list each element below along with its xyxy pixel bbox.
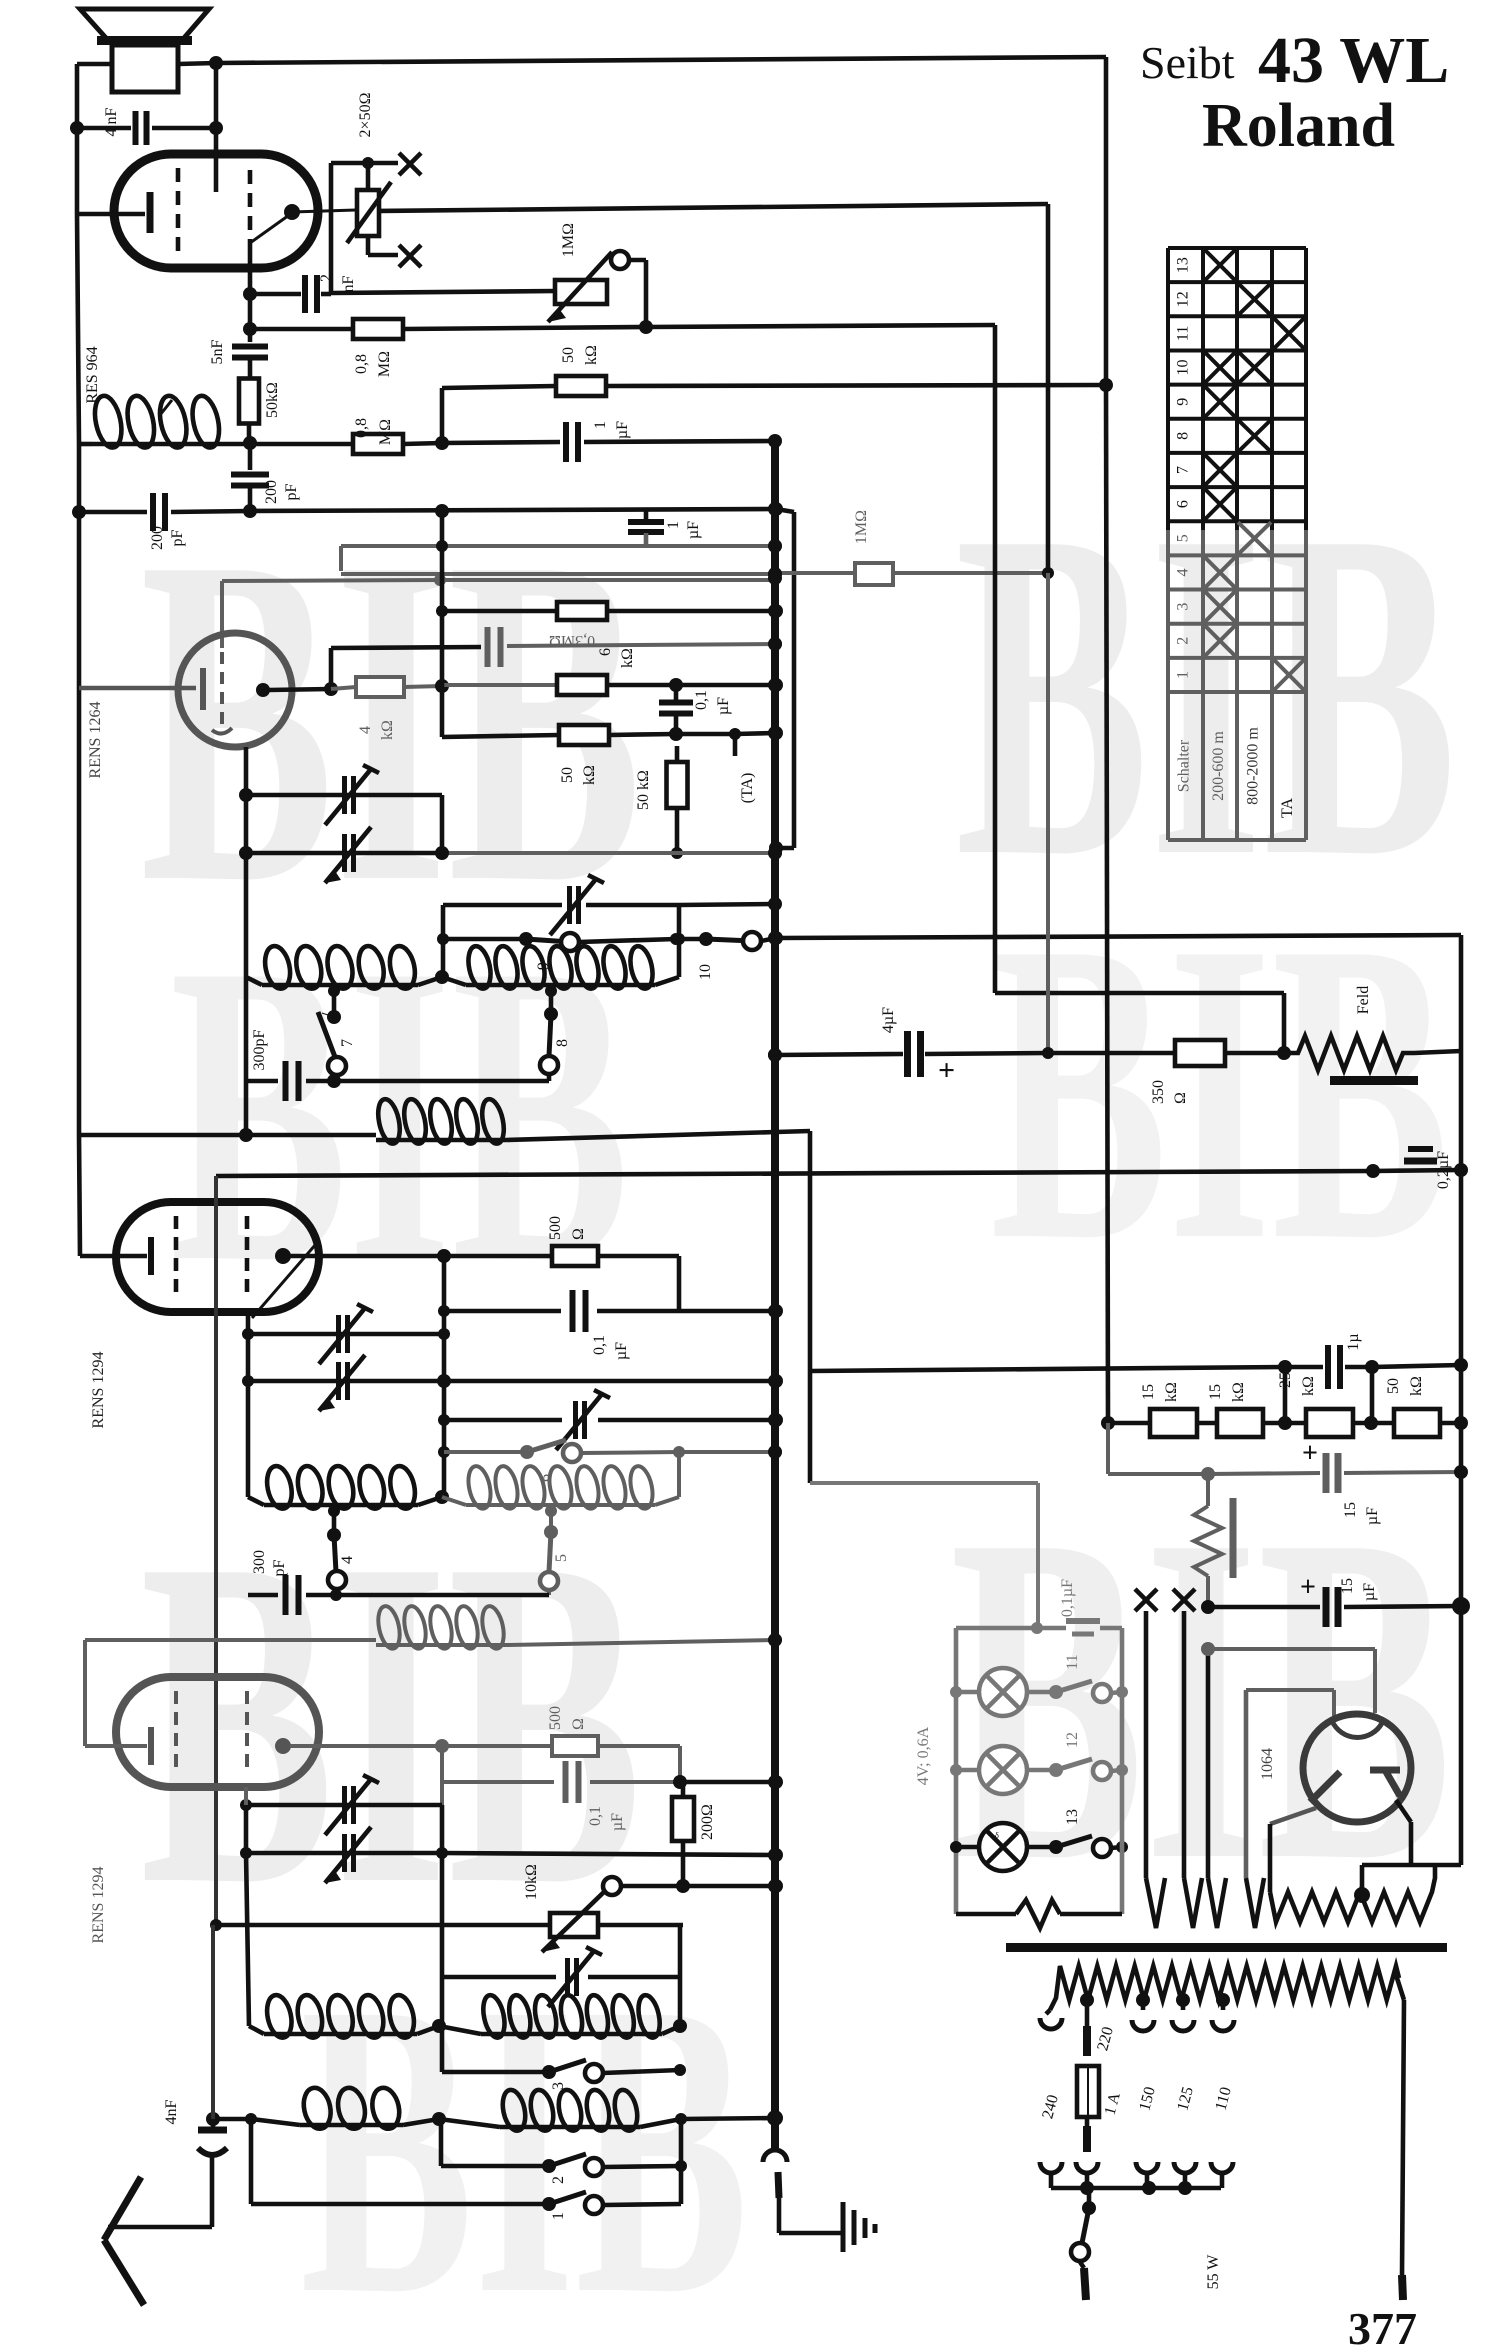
svg-text:12: 12 <box>1175 291 1192 307</box>
tube RENS 1264 <box>178 633 292 747</box>
svg-text:150: 150 <box>1136 2085 1159 2113</box>
transformer core <box>1006 1943 1447 1952</box>
resistor 500Ω (1) <box>444 1216 679 1311</box>
terminal X heater b <box>1173 1589 1195 1611</box>
wire anode to 0.3M cap <box>331 647 481 689</box>
title Seibt <box>1140 37 1235 88</box>
capacitor 200pF (antenna) <box>79 493 250 550</box>
label 4V 0,6A <box>915 1726 932 1785</box>
wire plate return <box>214 63 219 192</box>
svg-text:4: 4 <box>357 726 374 734</box>
svg-text:4: 4 <box>339 1556 356 1564</box>
node bus bottom <box>767 2110 783 2126</box>
svg-text:MΩ: MΩ <box>377 419 394 445</box>
capacitor 200pF (series) <box>231 443 300 511</box>
svg-text:4 nF: 4 nF <box>103 107 120 136</box>
tube RENS1294a arrow <box>252 1244 316 1318</box>
resistor 50kΩ (AF) <box>239 379 281 444</box>
wire heater a <box>1146 1611 1165 1928</box>
svg-text:1: 1 <box>1175 671 1192 679</box>
label RES 964 <box>84 346 101 403</box>
node anode junction <box>324 682 338 696</box>
svg-text:4µF: 4µF <box>880 1007 897 1033</box>
capacitor 300pF (RF2) <box>248 1550 549 1615</box>
wire main bus vertical <box>771 441 779 2151</box>
svg-text:TA: TA <box>1279 798 1296 818</box>
resistor 0,8MΩ (upper) <box>353 319 995 339</box>
wire 50k feed <box>442 386 556 443</box>
tube RENS 1294 (first) <box>116 1202 319 1312</box>
svg-text:0,8: 0,8 <box>353 354 370 374</box>
resistor 50kΩ (TA divider lower) <box>635 746 688 859</box>
capacitor trimmer (RF3a) <box>240 1775 442 2072</box>
ground <box>843 2202 875 2252</box>
loudspeaker <box>80 9 209 92</box>
capacitor trimmer (osc2) <box>442 1925 687 2033</box>
svg-text:200-600 m: 200-600 m <box>1210 731 1227 801</box>
svg-text:12: 12 <box>1064 1732 1081 1748</box>
resistor 0,8MΩ (lower) <box>250 434 449 454</box>
svg-text:15: 15 <box>1140 1384 1157 1400</box>
selector hooks <box>1040 2162 1233 2188</box>
svg-text:200Ω: 200Ω <box>699 1804 716 1840</box>
wire anode branch vertical 2 <box>440 1746 444 1805</box>
svg-text:11: 11 <box>1175 326 1192 341</box>
tube RENS1264 heater hook <box>212 728 232 734</box>
wire grid line to 1M pot <box>331 291 556 293</box>
antenna <box>104 2177 212 2305</box>
tube RES 964 <box>114 154 318 268</box>
coil osc2 b <box>439 1993 680 2039</box>
terminal X bottom <box>399 245 421 267</box>
svg-text:377: 377 <box>1348 2303 1417 2352</box>
resistor 1MΩ (AVC) <box>341 510 1054 585</box>
selector bus <box>1051 2181 1221 2195</box>
coil antenna coupling b <box>439 2088 775 2133</box>
wire 1064 filament left <box>1270 1808 1316 1892</box>
svg-text:+: + <box>938 1054 955 1087</box>
resistor 200Ω <box>672 1782 716 1893</box>
switch mains <box>1071 2188 1096 2300</box>
svg-text:Schalter: Schalter <box>1176 739 1193 792</box>
svg-text:13: 13 <box>1175 257 1192 273</box>
svg-text:110: 110 <box>1212 2085 1234 2112</box>
switch 2 <box>441 2119 687 2184</box>
switch 9 <box>443 932 682 970</box>
winding rectifier filament <box>1270 1865 1435 1922</box>
svg-text:240: 240 <box>1039 2093 1062 2121</box>
svg-text:50kΩ: 50kΩ <box>264 382 281 418</box>
svg-text:µF: µF <box>609 1813 626 1831</box>
wire 1064 filament right <box>1396 1800 1411 1865</box>
capacitor 1µF (y443) <box>442 421 775 462</box>
switch 5 (gray) <box>540 1505 570 1595</box>
coil osc2 a <box>249 1993 446 2040</box>
wire speaker B+ vertical <box>378 57 1115 1430</box>
svg-text:BIB: BIB <box>990 854 1449 1330</box>
svg-text:0,1: 0,1 <box>587 1806 604 1826</box>
svg-text:µF: µF <box>685 521 702 539</box>
label 1A <box>1102 2090 1124 2117</box>
capacitor 4µF <box>768 1007 1048 1087</box>
wire bus to ant2 <box>206 2112 257 2126</box>
switch 7 <box>318 985 356 1081</box>
svg-text:0,1: 0,1 <box>591 1335 608 1355</box>
svg-text:13: 13 <box>1064 1809 1081 1825</box>
potentiometer 1MΩ <box>548 223 612 322</box>
tube RENS1294a grids dashed <box>176 1216 247 1298</box>
label coil tick <box>160 400 172 415</box>
wire output B+ vertical <box>1042 204 1054 1059</box>
capacitor 0,1µF (1) <box>438 1290 783 1360</box>
wire heater c <box>1201 1642 1226 1928</box>
svg-text:pF: pF <box>283 483 300 500</box>
svg-text:220: 220 <box>1094 2025 1117 2053</box>
capacitor 4nF (antenna) <box>163 2099 227 2227</box>
resistor 500Ω (2) <box>442 1706 680 1782</box>
switch 3 <box>442 2060 686 2090</box>
watermark BIB row4 <box>300 1916 749 2352</box>
tube 1064 <box>1303 1714 1411 1822</box>
coil RF interstage a <box>246 944 449 991</box>
svg-text:350: 350 <box>1150 1080 1167 1104</box>
label 125 <box>1174 2085 1197 2113</box>
capacitor 0,2µF <box>1373 1149 1468 1189</box>
coil antenna coupling a <box>251 2085 446 2131</box>
svg-text:kΩ: kΩ <box>1163 1382 1180 1402</box>
svg-text:3: 3 <box>1175 603 1192 611</box>
svg-text:RENS 1294: RENS 1294 <box>90 1352 107 1429</box>
wire mains lead right <box>1396 1975 1404 2300</box>
svg-text:µF: µF <box>1361 1583 1378 1601</box>
switch 11 <box>1027 1654 1128 1702</box>
resistor 50kΩ (bleeder) <box>1371 1376 1468 1437</box>
svg-text:0,1: 0,1 <box>693 690 710 710</box>
svg-text:RENS 1264: RENS 1264 <box>87 702 104 779</box>
wire pot bottom to X <box>368 236 398 255</box>
resistor 50kΩ (det load) <box>556 345 1106 396</box>
svg-text:0,2µF: 0,2µF <box>1435 1151 1452 1189</box>
tap 125 <box>1172 1993 1194 2031</box>
node 4k-6k junction <box>435 679 449 693</box>
switch table Schalter/200-600m/800-2000m/TA <box>1168 248 1306 840</box>
svg-text:2×50Ω: 2×50Ω <box>357 92 374 137</box>
tap 220 fuse 1A <box>1077 1993 1099 2152</box>
resistor 15kΩ (1) <box>1108 1382 1197 1437</box>
svg-text:1MΩ: 1MΩ <box>853 510 870 544</box>
svg-text:5: 5 <box>553 1554 570 1562</box>
svg-text:kΩ: kΩ <box>619 648 636 668</box>
svg-text:8: 8 <box>1175 432 1192 440</box>
tube RENS1294b cathode <box>85 1640 151 1765</box>
lamp box right rail <box>1120 1628 1125 1914</box>
wire speaker left rail <box>77 62 112 67</box>
svg-text:MΩ: MΩ <box>376 351 393 377</box>
tube RES964 anode <box>250 204 356 296</box>
capacitor 4nF (speaker) <box>77 107 223 145</box>
svg-text:0,1µF: 0,1µF <box>1059 1579 1076 1617</box>
tube RENS1294a anode <box>275 1248 451 1264</box>
capacitor trimmer (RF2a) <box>242 1304 450 1364</box>
node bus junctions <box>768 434 782 2125</box>
svg-text:5nF: 5nF <box>209 339 226 364</box>
tube RENS1264 cathode <box>79 668 203 710</box>
capacitor trimmer (RF1a) <box>239 765 442 853</box>
capacitor 300pF (RF1) <box>246 1029 549 1101</box>
svg-text:2: 2 <box>1175 637 1192 645</box>
switch 10 <box>676 931 783 980</box>
wire pot top to grid cap <box>331 163 368 294</box>
resistor 350Ω <box>1048 1040 1284 1104</box>
svg-text:125: 125 <box>1174 2085 1197 2113</box>
potentiometer 10kΩ <box>216 1864 783 1952</box>
wire detector B+ vertical <box>995 325 1291 1060</box>
wire cathode drop <box>244 747 249 977</box>
label RENS 1264 <box>87 702 104 779</box>
svg-text:10kΩ: 10kΩ <box>523 1864 540 1900</box>
terminal 1M pot wiper <box>611 251 653 334</box>
svg-text:9: 9 <box>1175 398 1192 406</box>
resistor lamp dropper <box>956 1900 1122 1928</box>
svg-text:50 kΩ: 50 kΩ <box>635 770 652 810</box>
svg-text:Seibt: Seibt <box>1140 37 1235 88</box>
tube RES964 screen dashed <box>248 170 253 240</box>
capacitor trimmer (RF2c) <box>444 1390 783 1450</box>
svg-text:4: 4 <box>1175 568 1192 576</box>
svg-text:1 A: 1 A <box>1102 2090 1124 2117</box>
svg-text:Ω: Ω <box>570 1228 587 1240</box>
capacitor 0,1µF (2) <box>442 1761 783 1831</box>
svg-text:200: 200 <box>149 526 166 550</box>
capacitor variable (RF1b) <box>239 827 449 883</box>
tap 110 <box>1212 1993 1234 2031</box>
lamp box left rail <box>950 1628 962 1914</box>
svg-text:+: + <box>1302 1438 1318 1469</box>
svg-text:RENS 1294: RENS 1294 <box>90 1867 107 1944</box>
resistor 0,3MΩ <box>442 602 783 649</box>
title 43 WL <box>1258 24 1449 97</box>
label 110 <box>1212 2085 1234 2112</box>
switch 12 <box>1027 1732 1128 1780</box>
label 220 <box>1094 2025 1117 2053</box>
svg-text:pF: pF <box>271 1559 288 1576</box>
lamp 12 <box>956 1746 1027 1794</box>
capacitor 15µF (2) <box>1201 1572 1470 1627</box>
svg-text:kΩ: kΩ <box>1300 1376 1317 1396</box>
coil RF2 a <box>248 1464 449 1511</box>
svg-text:1: 1 <box>592 421 609 429</box>
label 55 W <box>1205 2254 1222 2290</box>
wire bias line <box>810 1367 1372 1423</box>
wire HT rail (0,2uF line) <box>216 1164 1380 1178</box>
tube RENS1294b anode <box>275 1738 449 1754</box>
tube RENS1294b grids dashed <box>176 1691 247 1773</box>
wire TA gray return <box>442 847 782 859</box>
svg-text:2: 2 <box>550 2176 567 2184</box>
terminal plug bus <box>763 2150 787 2162</box>
svg-text:200: 200 <box>263 480 280 504</box>
svg-text:2: 2 <box>318 274 335 282</box>
svg-text:8: 8 <box>554 1039 571 1047</box>
tube RENS1294a cathode <box>80 1237 151 1275</box>
coil antenna 2 (gray) <box>85 1604 782 1650</box>
coil RF interstage b <box>442 944 679 991</box>
wire grid return bus <box>250 502 783 516</box>
capacitor variable (RF3b) <box>240 1827 783 1883</box>
capacitor 1µF (bias) <box>1278 1333 1468 1423</box>
svg-text:Feld: Feld <box>1355 986 1372 1014</box>
potentiometer 2x50 Ohm <box>347 92 391 243</box>
svg-text:µF: µF <box>715 697 732 715</box>
node grid return <box>72 504 257 519</box>
coil RF2 b (gray) <box>442 1452 679 1511</box>
watermark BIB row1 <box>140 434 1457 980</box>
lamp 13 <box>956 1823 1027 1871</box>
wire osc vertical <box>211 1925 215 2119</box>
capacitor 5nF <box>209 294 268 379</box>
wire rect filament jumper a <box>1208 1649 1375 1713</box>
wire AVC gray y545 <box>341 540 782 571</box>
svg-text:500: 500 <box>547 1706 564 1730</box>
svg-text:1: 1 <box>550 2212 567 2220</box>
label 150 <box>1136 2085 1159 2113</box>
wire lamp feed corner <box>776 1131 810 1483</box>
capacitor 2nF <box>243 274 357 313</box>
svg-text:kΩ: kΩ <box>379 720 396 740</box>
capacitor trimmer (osc) <box>443 875 679 935</box>
label RENS 1294 (first) <box>90 1352 107 1429</box>
label RENS 1294 (second) <box>90 1867 107 1944</box>
svg-text:µF: µF <box>613 1342 630 1360</box>
label (TA) <box>735 734 756 803</box>
resistor Feld (field coil) <box>1284 986 1461 1085</box>
capacitor 0,1µF (det) <box>659 685 732 735</box>
svg-text:nF: nF <box>340 275 357 292</box>
switch 4 <box>327 1505 356 1595</box>
terminal X top <box>399 153 421 175</box>
tube RES964 cathode <box>77 192 150 233</box>
svg-text:0,8: 0,8 <box>353 418 370 438</box>
wire antenna rail <box>77 64 80 1256</box>
svg-text:Roland: Roland <box>1202 92 1395 160</box>
wire anode branch vertical <box>437 1256 451 1497</box>
wire grid gray y578 <box>222 574 776 648</box>
svg-text:50: 50 <box>560 347 577 363</box>
switch 6 <box>444 1440 782 1482</box>
svg-text:(TA): (TA) <box>739 773 756 804</box>
resistor Urdox (ballast) <box>1194 1474 1233 1607</box>
terminal X heater a <box>1135 1589 1157 1611</box>
svg-text:Ω: Ω <box>1172 1092 1189 1104</box>
svg-text:50: 50 <box>1385 1378 1402 1394</box>
capacitor 0,1µF (lamps) <box>956 1579 1122 1634</box>
svg-text:0,3MΩ: 0,3MΩ <box>549 632 595 649</box>
watermark BIB row2 <box>170 854 1449 1352</box>
wire screen line <box>243 322 354 336</box>
wire RF1 bottom <box>239 977 253 1142</box>
svg-text:11: 11 <box>1064 1654 1081 1669</box>
resistor 6kΩ <box>442 648 783 695</box>
wire heater d <box>1246 1690 1264 1928</box>
lamp 11 <box>956 1668 1027 1716</box>
label 240 <box>1039 2093 1062 2121</box>
svg-text:µF: µF <box>1364 1507 1381 1525</box>
svg-text:kΩ: kΩ <box>581 765 598 785</box>
svg-text:+: + <box>1300 1572 1316 1603</box>
svg-text:4nF: 4nF <box>163 2099 180 2124</box>
svg-text:1µ: 1µ <box>1345 1333 1362 1350</box>
wire RF2 cathode vertical <box>246 1312 251 1497</box>
wire rect filament jumper b <box>1246 1690 1334 1716</box>
svg-text:1MΩ: 1MΩ <box>560 223 577 257</box>
wire B+ right bus <box>1354 935 1461 1903</box>
coil antenna secondary <box>79 1097 776 1145</box>
svg-text:300pF: 300pF <box>251 1029 268 1070</box>
winding primary <box>1050 1966 1399 2010</box>
wire speaker to top bus <box>178 56 1106 70</box>
svg-text:1: 1 <box>665 521 682 529</box>
title Roland <box>1202 92 1395 160</box>
terminal jack ground <box>778 2172 842 2233</box>
wire grid bias vertical <box>210 1176 222 1931</box>
tube RENS1264 anode <box>256 683 331 697</box>
svg-text:ᵟ: ᵟ <box>995 1831 999 1846</box>
wire RF3 cathode vertical <box>246 1787 249 2026</box>
wire pot top to X <box>362 157 398 190</box>
svg-text:kΩ: kΩ <box>583 345 600 365</box>
resistor 25kΩ <box>1277 1372 1378 1437</box>
page number 377 <box>1348 2303 1417 2352</box>
tube RENS 1294 (second) <box>116 1677 319 1787</box>
svg-text:kΩ: kΩ <box>1408 1376 1425 1396</box>
svg-text:800-2000 m: 800-2000 m <box>1245 727 1262 805</box>
svg-text:RES 964: RES 964 <box>84 346 101 403</box>
wire osc corner <box>437 899 781 977</box>
wire heater b <box>1184 1611 1202 1928</box>
wire TA return <box>769 509 794 855</box>
capacitor variable (RF2b) <box>242 1355 783 1411</box>
wire switch10 to heater bus <box>776 935 1461 938</box>
svg-text:55 W: 55 W <box>1205 2254 1222 2290</box>
svg-text:kΩ: kΩ <box>1230 1382 1247 1402</box>
resistor 4kΩ <box>331 677 442 740</box>
capacitor 1µF (AVC) <box>628 511 702 546</box>
svg-text:µF: µF <box>614 421 631 439</box>
svg-text:10: 10 <box>1175 360 1192 376</box>
switch 13 <box>1027 1809 1128 1857</box>
node speaker left <box>70 121 84 135</box>
svg-text:15: 15 <box>1342 1502 1359 1518</box>
terminal 240 <box>1040 2010 1062 2029</box>
tube RENS1264 grid dashed <box>220 652 224 728</box>
svg-text:6: 6 <box>1175 500 1192 508</box>
svg-text:15: 15 <box>1339 1578 1356 1594</box>
tube RES964 grid dashed <box>176 168 181 252</box>
svg-text:5: 5 <box>1175 534 1192 542</box>
switch 8 <box>540 985 571 1081</box>
watermark BIB row3 <box>140 1438 1452 1982</box>
switch 1 <box>251 2119 681 2220</box>
resistor 50kΩ (TA divider upper) <box>442 725 783 785</box>
resistor 15kΩ (2) <box>1197 1382 1292 1437</box>
capacitor 15µF (1) <box>1108 1423 1468 1525</box>
wire lamp feed gray <box>810 1483 1038 1628</box>
coil antenna primary <box>79 393 257 450</box>
svg-text:pF: pF <box>169 529 186 546</box>
svg-text:50: 50 <box>559 767 576 783</box>
svg-text:300: 300 <box>251 1550 268 1574</box>
svg-text:6: 6 <box>597 648 614 656</box>
